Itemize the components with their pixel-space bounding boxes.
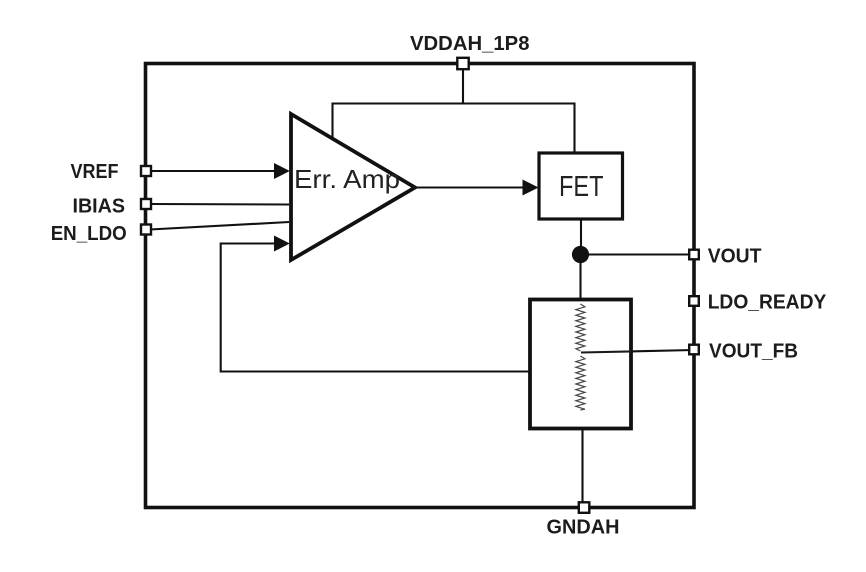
svg-text:FET: FET [559, 171, 604, 203]
svg-text:Err. Amp: Err. Amp [294, 164, 400, 194]
svg-text:IBIAS: IBIAS [73, 195, 126, 218]
svg-text:LDO_READY: LDO_READY [708, 291, 827, 314]
svg-text:VDDAH_1P8: VDDAH_1P8 [410, 32, 530, 55]
svg-text:VREF: VREF [71, 160, 119, 183]
svg-text:VOUT: VOUT [708, 245, 762, 268]
svg-text:VOUT_FB: VOUT_FB [709, 340, 798, 363]
svg-text:EN_LDO: EN_LDO [51, 222, 127, 245]
svg-text:GNDAH: GNDAH [547, 516, 620, 539]
